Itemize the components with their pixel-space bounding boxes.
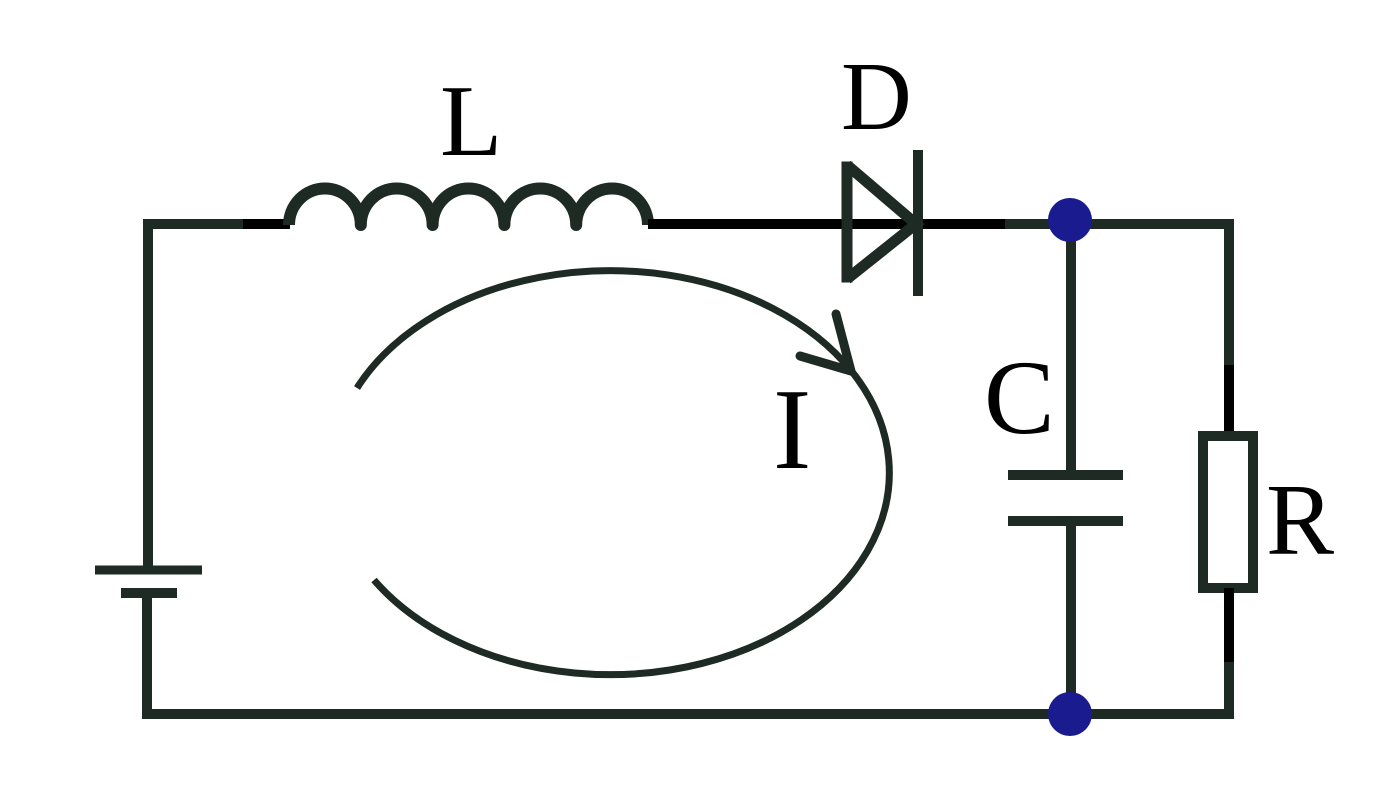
- wire black overlay above resistor: [1224, 365, 1234, 437]
- current loop arrowhead: [800, 314, 851, 371]
- node junction bottom: [1048, 692, 1092, 736]
- wire right vertical lower (resistor to bottom wire): [1224, 588, 1234, 714]
- wire left vertical upper (top corner to battery): [143, 219, 153, 566]
- wire left vertical lower (battery to bottom wire): [142, 598, 152, 719]
- wire capacitor top lead: [1066, 224, 1076, 470]
- inductor L: [289, 189, 648, 226]
- capacitor C top plate: [1008, 470, 1123, 480]
- capacitor C bottom plate: [1008, 516, 1123, 526]
- svg-text:L: L: [440, 65, 502, 178]
- wire bottom horizontal: [147, 709, 1234, 719]
- svg-text:R: R: [1266, 464, 1334, 577]
- wire top middle (inductor to top-right corner): [648, 219, 1234, 229]
- svg-text:D: D: [841, 43, 912, 151]
- node junction top: [1048, 198, 1092, 242]
- wire top-left horizontal (battery top to inductor): [148, 219, 290, 229]
- svg-text:I: I: [773, 366, 811, 493]
- current loop arc I: [357, 271, 889, 675]
- diode D triangle base bar: [842, 162, 853, 283]
- diode D cathode bar: [913, 150, 923, 296]
- resistor R box: [1203, 436, 1253, 588]
- battery long plate: [95, 566, 202, 575]
- wire black overlay through diode: [648, 219, 1005, 229]
- wire right vertical upper (corner to resistor): [1224, 219, 1234, 437]
- wire capacitor bottom lead: [1066, 526, 1076, 714]
- battery short plate: [121, 588, 177, 598]
- diode D triangle diagonals: [847, 165, 916, 279]
- wire black overlay inductor left lead: [243, 219, 290, 229]
- svg-text:C: C: [984, 339, 1055, 456]
- wire black overlay below resistor: [1224, 588, 1234, 662]
